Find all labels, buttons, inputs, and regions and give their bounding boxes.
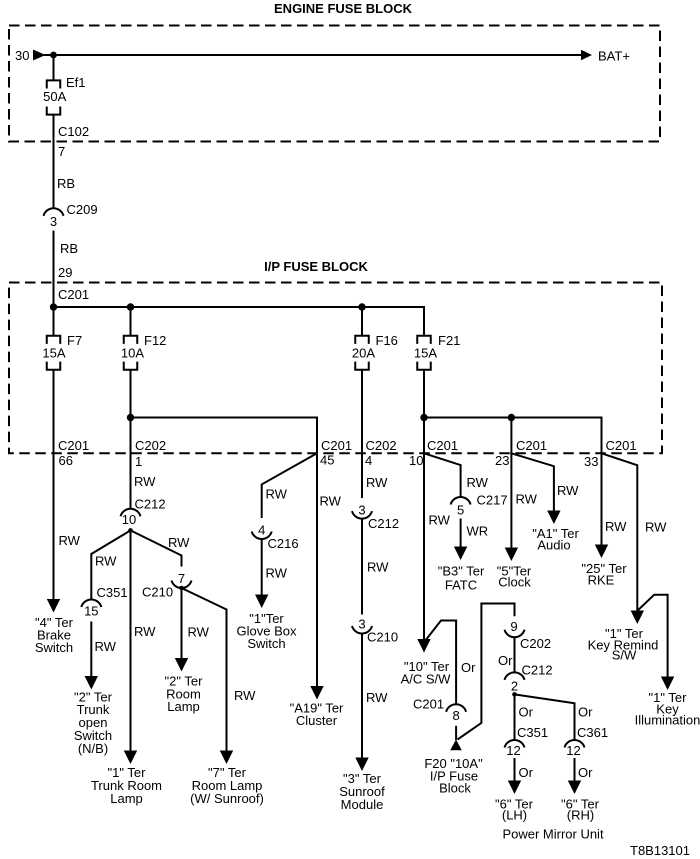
- svg-text:15A: 15A: [42, 346, 65, 361]
- svg-text:Switch: Switch: [247, 636, 285, 651]
- svg-text:RKE: RKE: [588, 573, 615, 588]
- fuse F21: [417, 336, 431, 370]
- arrow to audio: [547, 511, 560, 525]
- svg-text:9: 9: [510, 619, 517, 634]
- svg-text:RW: RW: [134, 474, 156, 489]
- svg-text:FATC: FATC: [445, 578, 477, 593]
- svg-text:50A: 50A: [43, 89, 66, 104]
- wire F12 junction to connector C212: [130, 418, 132, 509]
- arrow to mirror RH: [568, 781, 581, 795]
- svg-text:C201: C201: [58, 438, 89, 453]
- arrow to FATC: [454, 547, 467, 561]
- svg-text:ENGINE FUSE BLOCK: ENGINE FUSE BLOCK: [274, 1, 413, 16]
- svg-text:C201: C201: [427, 438, 458, 453]
- svg-text:3: 3: [358, 503, 365, 518]
- svg-text:C201: C201: [413, 697, 444, 712]
- wire F20 to power mirror feed: [458, 604, 515, 740]
- junction dot at F12: [127, 303, 134, 310]
- arrow to room lamp: [175, 658, 188, 672]
- svg-text:WR: WR: [467, 524, 489, 539]
- svg-text:30: 30: [15, 48, 29, 63]
- junction dot F12 lower bus: [127, 414, 134, 421]
- svg-text:45: 45: [320, 453, 334, 468]
- wire connector C201 pin 8 to A/C switch: [425, 621, 456, 705]
- wire to glove box switch branch: [262, 453, 317, 518]
- wire C212 to connector C210: [131, 530, 182, 566]
- svg-text:Audio: Audio: [537, 538, 570, 553]
- wire C212 to connector C210: [361, 519, 363, 615]
- svg-text:F7: F7: [67, 333, 82, 348]
- svg-text:C210: C210: [142, 585, 173, 600]
- wire bus to fuse F7: [53, 307, 55, 335]
- wire C212 to connector C361: [515, 694, 575, 740]
- wire to audio branch: [511, 453, 554, 511]
- svg-text:RW: RW: [516, 492, 538, 507]
- junction dot F21 lower bus: [420, 414, 427, 421]
- wire clock branch: [510, 418, 512, 549]
- wire C351 to mirror LH: [514, 758, 516, 781]
- svg-text:Or: Or: [498, 653, 513, 668]
- svg-text:10: 10: [122, 512, 136, 527]
- connector C212: [121, 509, 141, 517]
- svg-text:Module: Module: [341, 797, 384, 812]
- svg-text:(RH): (RH): [567, 808, 594, 823]
- svg-text:Ef1: Ef1: [66, 75, 86, 90]
- svg-text:RW: RW: [366, 690, 388, 705]
- arrow to clock: [505, 548, 518, 562]
- svg-text:33: 33: [584, 454, 598, 469]
- arrow to glove box switch: [255, 595, 268, 609]
- svg-text:RW: RW: [266, 566, 288, 581]
- svg-text:Cluster: Cluster: [296, 713, 338, 728]
- svg-text:C351: C351: [97, 585, 128, 600]
- svg-text:15A: 15A: [414, 346, 437, 361]
- svg-text:4: 4: [258, 523, 265, 538]
- svg-text:3: 3: [50, 214, 57, 229]
- svg-text:C212: C212: [135, 497, 166, 512]
- arrow to trunk open switch: [85, 676, 98, 690]
- arrow to key remind switch: [631, 611, 644, 625]
- svg-text:RW: RW: [429, 513, 451, 528]
- wire C351 to trunk open switch: [90, 622, 92, 677]
- bus wire in I/P fuse block: [54, 307, 425, 335]
- svg-text:RB: RB: [60, 241, 78, 256]
- junction dot clock branch: [508, 414, 515, 421]
- connector C216: [252, 532, 272, 540]
- svg-text:S/W: S/W: [612, 648, 637, 663]
- wire C217 to FATC: [460, 519, 462, 548]
- fuse F12: [124, 336, 138, 370]
- svg-text:Or: Or: [519, 705, 534, 720]
- wire C202 to C212: [514, 637, 516, 672]
- svg-text:Or: Or: [519, 765, 534, 780]
- svg-text:RW: RW: [134, 624, 156, 639]
- svg-text:29: 29: [58, 265, 72, 280]
- svg-text:20A: 20A: [352, 346, 375, 361]
- wire F7 to brake switch: [53, 370, 55, 600]
- svg-text:RW: RW: [95, 554, 117, 569]
- svg-text:7: 7: [58, 144, 65, 159]
- wire to connector C217 branch: [424, 453, 461, 497]
- svg-text:RW: RW: [367, 560, 389, 575]
- arrow to key illumination: [661, 677, 674, 691]
- lower bus wire F21 branch: [424, 418, 602, 454]
- svg-text:RW: RW: [605, 519, 627, 534]
- svg-text:RW: RW: [557, 483, 579, 498]
- svg-text:12: 12: [566, 743, 580, 758]
- svg-text:C351: C351: [517, 725, 548, 740]
- engine fuse block boundary: [9, 26, 660, 142]
- svg-text:F21: F21: [438, 333, 460, 348]
- svg-text:F16: F16: [376, 333, 398, 348]
- svg-text:RB: RB: [57, 176, 75, 191]
- svg-text:(LH): (LH): [502, 808, 527, 823]
- svg-text:C102: C102: [58, 124, 89, 139]
- svg-text:RW: RW: [645, 520, 667, 535]
- svg-text:I/P FUSE BLOCK: I/P FUSE BLOCK: [264, 259, 368, 274]
- svg-text:C209: C209: [67, 202, 98, 217]
- junction at fuse Ef1 tap: [50, 52, 57, 59]
- svg-text:Or: Or: [578, 765, 593, 780]
- wire to key remind branch: [602, 453, 638, 611]
- svg-text:66: 66: [59, 453, 73, 468]
- svg-text:C202: C202: [520, 636, 551, 651]
- fuse F7: [47, 336, 61, 370]
- svg-text:C201: C201: [58, 287, 89, 302]
- svg-text:RW: RW: [95, 639, 117, 654]
- arrow to sunroof module: [355, 758, 368, 772]
- svg-text:7: 7: [178, 571, 185, 586]
- junction below connector C210: [179, 586, 184, 591]
- svg-text:C216: C216: [268, 536, 299, 551]
- wire C210 to room lamp: [181, 588, 183, 659]
- svg-text:C201: C201: [606, 438, 637, 453]
- BAT+ arrow: [581, 50, 592, 61]
- svg-text:Lamp: Lamp: [167, 699, 200, 714]
- connector C212: [352, 511, 372, 519]
- wire C212 to connector C351: [514, 694, 516, 740]
- wire C361 to mirror RH: [574, 758, 576, 781]
- fuse F16: [355, 336, 369, 370]
- svg-text:RW: RW: [234, 688, 256, 703]
- svg-text:A/C S/W: A/C S/W: [401, 672, 452, 687]
- wire C212 to trunk room lamp: [130, 530, 132, 751]
- arrow to brake switch: [47, 599, 60, 613]
- svg-text:C202: C202: [366, 438, 397, 453]
- wire C212 to connector C351: [91, 530, 130, 599]
- svg-text:12: 12: [506, 743, 520, 758]
- svg-text:C212: C212: [368, 516, 399, 531]
- svg-text:Or: Or: [461, 660, 476, 675]
- arrow to room lamp w/ sunroof: [220, 751, 233, 765]
- svg-text:8: 8: [452, 708, 459, 723]
- svg-text:Switch: Switch: [35, 640, 73, 655]
- svg-text:3: 3: [358, 617, 365, 632]
- svg-text:1: 1: [135, 454, 142, 469]
- wire C201 to F20: [455, 726, 457, 740]
- svg-text:(W/ Sunroof): (W/ Sunroof): [190, 791, 264, 806]
- svg-text:RW: RW: [467, 475, 489, 490]
- wire F12 to lower junction: [130, 370, 132, 418]
- svg-text:(N/B): (N/B): [78, 741, 108, 756]
- svg-text:RW: RW: [320, 494, 342, 509]
- arrow to A/C switch: [417, 639, 430, 653]
- svg-text:Clock: Clock: [498, 575, 531, 590]
- wire C216 to glove box switch: [261, 539, 263, 595]
- wire F21 to A/C switch: [423, 418, 425, 640]
- wire RKE branch: [601, 453, 603, 545]
- wire 30 entry arrow: [33, 50, 46, 61]
- svg-text:5: 5: [457, 503, 464, 518]
- arrow to mirror LH: [508, 781, 521, 795]
- junction below connector C212: [512, 692, 517, 697]
- wire to key illumination: [637, 595, 667, 677]
- connector C210: [172, 581, 192, 589]
- svg-text:Illumination: Illumination: [635, 713, 700, 728]
- wire C210 to sunroof module: [361, 634, 363, 759]
- wire junction to fuse Ef1: [53, 55, 55, 80]
- connector C361: [565, 740, 585, 748]
- svg-text:RW: RW: [188, 625, 210, 640]
- wire cluster branch: [316, 453, 318, 686]
- svg-text:C212: C212: [522, 663, 553, 678]
- svg-text:"B3" Ter: "B3" Ter: [438, 564, 485, 579]
- connector C217: [451, 497, 471, 505]
- off-page arrow from F20 fuse: [450, 740, 462, 751]
- wire F21 to lower junction: [423, 370, 425, 418]
- svg-text:BAT+: BAT+: [598, 49, 630, 64]
- connector C202: [505, 630, 525, 638]
- svg-text:2: 2: [511, 679, 518, 694]
- junction dot at F16: [358, 303, 365, 310]
- svg-text:C201: C201: [516, 438, 547, 453]
- svg-text:RW: RW: [168, 535, 190, 550]
- I/P fuse block boundary: [9, 283, 662, 454]
- svg-text:F12: F12: [144, 333, 166, 348]
- svg-text:4: 4: [365, 453, 372, 468]
- svg-text:C217: C217: [477, 493, 508, 508]
- svg-text:C201: C201: [321, 438, 352, 453]
- svg-text:23: 23: [495, 453, 509, 468]
- svg-text:Power Mirror Unit: Power Mirror Unit: [502, 827, 604, 842]
- connector C351: [81, 599, 101, 607]
- svg-text:Lamp: Lamp: [110, 791, 143, 806]
- svg-text:10A: 10A: [121, 346, 144, 361]
- wire C209 to I/P fuse block: [53, 231, 55, 308]
- junction below connector C212: [128, 528, 133, 533]
- svg-text:T8B13101: T8B13101: [630, 843, 690, 858]
- connector C210: [352, 626, 372, 634]
- wire bus to fuse F16: [361, 307, 363, 335]
- connector C201: [446, 704, 466, 712]
- arrow to RKE: [595, 545, 608, 559]
- svg-text:Block: Block: [439, 781, 471, 796]
- connector C351: [505, 740, 525, 748]
- arrow to trunk room lamp: [124, 751, 137, 765]
- arrow to cluster: [310, 686, 323, 700]
- wire C210 to room lamp w/ sunroof: [182, 588, 227, 751]
- fuse Ef1: [47, 80, 61, 114]
- svg-text:C210: C210: [367, 630, 398, 645]
- connector C212: [505, 672, 525, 680]
- wire fuse Ef1 to connector C209: [53, 115, 55, 209]
- lower bus wire F12 to cluster branch: [131, 418, 318, 454]
- junction dot at F7: [50, 303, 57, 310]
- svg-text:15: 15: [84, 604, 98, 619]
- svg-text:C202: C202: [135, 438, 166, 453]
- svg-text:RW: RW: [366, 475, 388, 490]
- svg-text:C361: C361: [577, 725, 608, 740]
- svg-text:10: 10: [409, 453, 423, 468]
- connector C209: [44, 208, 64, 216]
- svg-text:RW: RW: [266, 487, 288, 502]
- wire bus to fuse F12: [130, 307, 132, 335]
- svg-text:Or: Or: [578, 705, 593, 720]
- svg-text:RW: RW: [59, 533, 81, 548]
- wire F16 to connector C212: [361, 370, 363, 498]
- wire 30 to BAT+: [44, 54, 581, 56]
